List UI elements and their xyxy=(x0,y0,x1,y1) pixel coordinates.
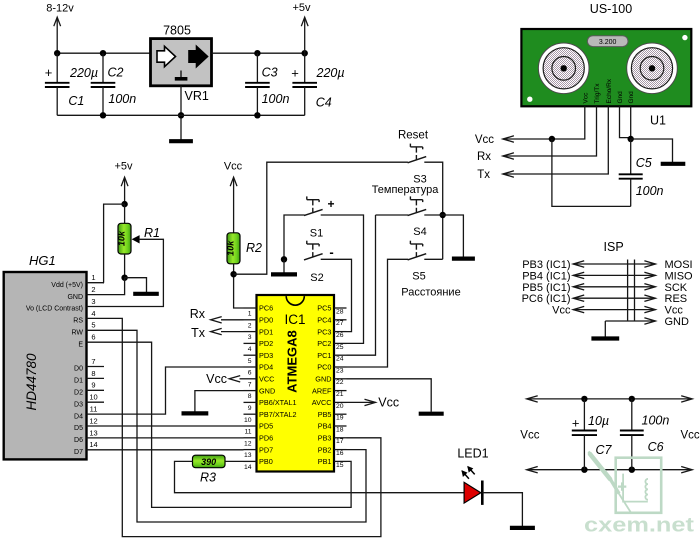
junction R1 bottom xyxy=(121,275,127,281)
svg-text:9: 9 xyxy=(248,405,252,412)
svg-text:9: 9 xyxy=(91,381,95,390)
svg-text:+: + xyxy=(291,66,299,81)
wire R3 to PB0 xyxy=(225,460,244,462)
capacitor C5 xyxy=(619,139,664,206)
svg-text:Vdd (+5V): Vdd (+5V) xyxy=(51,282,83,289)
wire Vcc bottom rail xyxy=(527,467,693,473)
svg-text:100n: 100n xyxy=(636,184,664,198)
svg-text:S4: S4 xyxy=(413,226,426,238)
capacitor C1 xyxy=(45,53,98,115)
svg-text:Vcc: Vcc xyxy=(224,161,243,173)
svg-text:PB5: PB5 xyxy=(318,410,332,419)
svg-text:8: 8 xyxy=(91,369,95,378)
svg-text:220µ: 220µ xyxy=(69,66,98,80)
svg-text:Gnd: Gnd xyxy=(628,91,635,104)
svg-text:Gnd: Gnd xyxy=(617,91,624,104)
svg-text:Trig/Tx: Trig/Tx xyxy=(594,83,601,104)
resistor R2 10k xyxy=(226,233,263,264)
svg-text:C1: C1 xyxy=(68,94,84,108)
svg-text:D5: D5 xyxy=(74,425,83,432)
svg-text:ISP: ISP xyxy=(604,240,624,254)
svg-text:PD5: PD5 xyxy=(259,422,273,431)
svg-text:Vo (LCD Contrast): Vo (LCD Contrast) xyxy=(26,306,83,313)
svg-text:22: 22 xyxy=(336,379,344,386)
junction C6 top xyxy=(629,396,635,402)
svg-text:D7: D7 xyxy=(74,449,83,456)
junction S3-S4 xyxy=(440,212,446,218)
svg-text:Vcc: Vcc xyxy=(520,430,539,442)
node Vcc (pin7) xyxy=(206,372,243,386)
svg-text:Echo/Rx: Echo/Rx xyxy=(606,78,613,103)
svg-text:+: + xyxy=(327,197,334,211)
wire Echo/Rx down to Tx xyxy=(503,106,608,174)
svg-text:D1: D1 xyxy=(74,378,83,385)
svg-text:PC2: PC2 xyxy=(317,339,331,348)
wire GND pin8 xyxy=(195,391,244,412)
junction S1-S2 left xyxy=(281,256,287,262)
wire LED cathode to ground xyxy=(482,493,522,526)
svg-text:PB6/XTAL1: PB6/XTAL1 xyxy=(259,398,297,407)
ground LED xyxy=(510,526,535,530)
button S4 xyxy=(408,196,427,215)
wire GND pin22 xyxy=(347,379,432,412)
svg-text:PB3: PB3 xyxy=(318,434,332,443)
svg-text:D0: D0 xyxy=(74,366,83,373)
svg-text:GND: GND xyxy=(665,316,690,328)
svg-text:15: 15 xyxy=(336,462,344,469)
svg-text:S2: S2 xyxy=(310,272,323,284)
potentiometer R1 10k xyxy=(116,204,160,278)
svg-text:Vcc: Vcc xyxy=(665,305,684,317)
junction Vcc line C5 xyxy=(549,136,555,142)
svg-text:12: 12 xyxy=(244,440,252,447)
svg-text:25: 25 xyxy=(336,344,344,351)
svg-text:R1: R1 xyxy=(144,226,160,240)
svg-text:HG1: HG1 xyxy=(29,253,56,268)
wire S1 left xyxy=(284,215,305,259)
svg-text:10µ: 10µ xyxy=(588,414,609,428)
svg-text:8-12v: 8-12v xyxy=(46,3,74,15)
svg-text:C3: C3 xyxy=(262,66,278,80)
junction C7 bottom xyxy=(581,467,587,473)
regulator VR1 7805 xyxy=(151,24,212,104)
node Tx (IC) xyxy=(191,326,243,340)
ground VR1 xyxy=(169,139,193,143)
wire RS to PB3 xyxy=(104,318,381,536)
ground U1 xyxy=(661,162,686,166)
wire S5 left to PC0 xyxy=(347,259,409,367)
HG1 pin labels and numbers xyxy=(26,273,104,456)
wire S2 left to ground xyxy=(283,259,285,272)
svg-text:24: 24 xyxy=(336,356,344,363)
svg-text:RES: RES xyxy=(665,293,688,305)
svg-text:23: 23 xyxy=(336,367,344,374)
wire D4 to PD4 xyxy=(104,367,244,414)
US-100 pin labels xyxy=(582,78,635,103)
capacitor C4 xyxy=(291,53,344,115)
svg-text:LED1: LED1 xyxy=(457,447,488,461)
node Rx (IC) xyxy=(190,307,244,323)
op IC1 ATMEGA8 xyxy=(257,295,335,472)
svg-text:10k: 10k xyxy=(116,230,126,246)
svg-text:C6: C6 xyxy=(648,440,664,454)
capacitor C6 xyxy=(620,399,669,470)
svg-text:20: 20 xyxy=(336,403,344,410)
svg-text:13: 13 xyxy=(244,452,252,459)
watermark cxem.net xyxy=(584,452,694,537)
svg-text:4: 4 xyxy=(91,309,95,318)
junction input rail C2 xyxy=(100,50,106,56)
wire +5v to Vdd pin1 xyxy=(104,204,125,283)
svg-text:220µ: 220µ xyxy=(316,66,345,80)
svg-text:12: 12 xyxy=(89,416,97,425)
node Rx xyxy=(477,151,514,163)
capacitor C3 xyxy=(245,53,289,115)
svg-text:17: 17 xyxy=(336,438,344,445)
svg-text:Температура: Температура xyxy=(372,184,440,196)
junction output rail C3 xyxy=(254,50,260,56)
junction input rail C1 xyxy=(54,50,60,56)
svg-text:PC3: PC3 xyxy=(317,327,331,336)
wire reset line xyxy=(234,162,408,274)
svg-text:11: 11 xyxy=(90,405,98,414)
junction R1 top xyxy=(121,201,127,207)
button S3 Reset xyxy=(408,144,427,163)
svg-text:Расстояние: Расстояние xyxy=(401,287,460,299)
svg-text:SCK: SCK xyxy=(665,282,688,294)
svg-text:PD6: PD6 xyxy=(259,434,273,443)
svg-text:D2: D2 xyxy=(74,390,83,397)
svg-text:GND: GND xyxy=(315,375,331,384)
button S1 xyxy=(304,196,323,215)
junction VR1 gnd rail xyxy=(178,112,184,118)
svg-text:5: 5 xyxy=(248,358,252,365)
wire S5 right xyxy=(424,258,442,260)
svg-text:PD0: PD0 xyxy=(259,316,273,325)
svg-text:1: 1 xyxy=(91,273,95,282)
wire R1 bottom to GND pin2 xyxy=(104,278,125,295)
ground S1 S2 xyxy=(271,272,297,276)
junction bottom rail C2 xyxy=(100,112,106,118)
wire to ground xyxy=(125,278,147,292)
svg-text:R2: R2 xyxy=(246,241,262,255)
svg-text:10: 10 xyxy=(89,393,97,402)
junction C7 top xyxy=(581,396,587,402)
resistor R3 390 xyxy=(193,455,226,484)
svg-text:PB2: PB2 xyxy=(318,445,332,454)
ISP header xyxy=(522,259,693,328)
svg-text:IC1: IC1 xyxy=(284,312,305,327)
svg-text:MOSI: MOSI xyxy=(665,259,693,271)
svg-text:390: 390 xyxy=(201,457,216,467)
svg-text:10k: 10k xyxy=(226,240,236,256)
svg-text:16: 16 xyxy=(336,450,344,457)
sensor module US-100 xyxy=(521,2,691,106)
svg-text:3: 3 xyxy=(91,297,95,306)
svg-text:S1: S1 xyxy=(310,228,323,240)
svg-text:C4: C4 xyxy=(316,95,332,109)
node 8-12v input xyxy=(46,3,74,54)
svg-text:6: 6 xyxy=(248,370,252,377)
svg-text:U1: U1 xyxy=(650,114,666,128)
svg-text:11: 11 xyxy=(244,429,251,436)
wire input top rail xyxy=(57,52,150,54)
svg-text:+: + xyxy=(45,65,53,80)
LED LED1 xyxy=(457,447,488,505)
svg-text:6: 6 xyxy=(91,333,95,342)
junction R2 bottom xyxy=(230,271,236,277)
wire bottom rail xyxy=(57,114,305,116)
svg-text:PC6 (IC1): PC6 (IC1) xyxy=(522,293,571,305)
wire E to PB1 xyxy=(104,342,351,507)
svg-text:Rx: Rx xyxy=(477,151,491,163)
svg-text:19: 19 xyxy=(336,415,344,422)
svg-text:Reset: Reset xyxy=(398,130,429,142)
wire D7 to PD7 xyxy=(104,449,244,451)
svg-text:PB4 (IC1): PB4 (IC1) xyxy=(522,270,570,282)
svg-text:-: - xyxy=(329,245,333,260)
svg-text:C2: C2 xyxy=(108,66,124,80)
svg-text:Tx: Tx xyxy=(477,169,490,181)
svg-text:7: 7 xyxy=(91,357,95,366)
svg-text:RS: RS xyxy=(73,318,83,325)
svg-text:18: 18 xyxy=(336,426,344,433)
svg-text:14: 14 xyxy=(244,464,252,471)
svg-text:28: 28 xyxy=(336,308,344,315)
node Vcc xyxy=(475,134,514,146)
svg-text:Vcc: Vcc xyxy=(378,396,399,410)
svg-text:C7: C7 xyxy=(596,443,613,457)
svg-text:PD4: PD4 xyxy=(259,363,273,372)
svg-text:PB0: PB0 xyxy=(259,457,273,466)
svg-text:10: 10 xyxy=(244,417,252,424)
svg-text:PC6: PC6 xyxy=(259,304,273,313)
wire ISP gnd xyxy=(604,321,606,337)
junction output rail C4 xyxy=(302,50,308,56)
svg-text:AVCC: AVCC xyxy=(312,398,332,407)
wire S3 right xyxy=(424,162,442,259)
svg-text:VCC: VCC xyxy=(259,375,274,384)
svg-text:21: 21 xyxy=(336,391,344,398)
junction C6 bottom xyxy=(629,467,635,473)
svg-text:cxem.net: cxem.net xyxy=(584,515,694,537)
svg-text:+5v: +5v xyxy=(114,161,133,173)
svg-text:7805: 7805 xyxy=(163,24,191,38)
svg-text:C5: C5 xyxy=(636,156,652,170)
wire RW to PB2 xyxy=(104,330,366,522)
svg-text:AREF: AREF xyxy=(312,386,332,395)
svg-text:R3: R3 xyxy=(200,471,216,485)
svg-text:Vcc: Vcc xyxy=(475,134,494,146)
svg-text:Vcc: Vcc xyxy=(582,92,589,104)
wire S4 left to PC1 xyxy=(347,215,376,355)
svg-text:+: + xyxy=(572,415,580,430)
button S2 xyxy=(304,241,323,260)
svg-text:Rx: Rx xyxy=(190,307,206,321)
svg-text:MISO: MISO xyxy=(665,270,694,282)
wire gnd to ground xyxy=(631,139,673,162)
svg-text:VR1: VR1 xyxy=(185,89,209,103)
svg-text:ATMEGA8: ATMEGA8 xyxy=(285,330,300,393)
svg-text:100n: 100n xyxy=(642,414,670,428)
wire Gnd pins xyxy=(620,106,631,137)
button S5 xyxy=(408,241,427,260)
svg-text:26: 26 xyxy=(336,332,344,339)
svg-text:PB4: PB4 xyxy=(318,422,332,431)
wire R1 wiper to Vo xyxy=(104,239,163,306)
node +5v output xyxy=(292,2,311,53)
svg-text:PB1: PB1 xyxy=(318,457,332,466)
capacitor C2 xyxy=(91,53,137,115)
wire D5 to PD5 xyxy=(104,425,244,427)
wire C5 bottom to Vcc xyxy=(552,139,631,206)
node +5v (R1) xyxy=(114,161,133,205)
svg-text:US-100: US-100 xyxy=(590,2,632,16)
svg-text:Vcc: Vcc xyxy=(206,372,227,386)
svg-text:PC1: PC1 xyxy=(317,351,331,360)
svg-text:HD44780: HD44780 xyxy=(24,353,39,411)
svg-text:Tx: Tx xyxy=(191,326,206,340)
svg-text:2: 2 xyxy=(248,322,252,329)
svg-text:27: 27 xyxy=(336,320,344,327)
ground pin8 xyxy=(182,411,209,415)
svg-text:Vcc: Vcc xyxy=(681,430,700,442)
svg-text:D6: D6 xyxy=(74,437,83,444)
svg-text:PC0: PC0 xyxy=(317,363,331,372)
wire Vcc pin down xyxy=(503,106,585,139)
svg-text:PD3: PD3 xyxy=(259,351,273,360)
wire S2 right to PC3 xyxy=(321,259,352,331)
transducer right xyxy=(627,43,678,94)
svg-text:100n: 100n xyxy=(108,92,136,106)
display HG1 HD44780 xyxy=(4,253,87,459)
svg-text:14: 14 xyxy=(89,440,97,449)
junction Gnd pins xyxy=(628,136,634,142)
svg-text:GND: GND xyxy=(67,294,83,301)
svg-text:E: E xyxy=(78,341,83,348)
wire Trig/Tx down to Rx xyxy=(503,106,597,156)
svg-text:100n: 100n xyxy=(262,92,290,106)
svg-text:Vcc: Vcc xyxy=(552,305,571,317)
svg-text:GND: GND xyxy=(259,386,275,395)
svg-text:8: 8 xyxy=(248,393,252,400)
svg-text:7: 7 xyxy=(248,381,252,388)
ground R1 xyxy=(133,292,159,296)
svg-text:PD1: PD1 xyxy=(259,327,273,336)
svg-text:4: 4 xyxy=(248,346,252,353)
svg-text:1: 1 xyxy=(248,311,252,318)
node Vcc (R2) xyxy=(224,161,243,233)
svg-text:3.200: 3.200 xyxy=(599,39,617,46)
svg-text:PB3 (IC1): PB3 (IC1) xyxy=(522,259,570,271)
wire R3 left to LED row xyxy=(175,461,465,492)
svg-text:PC5: PC5 xyxy=(317,304,331,313)
transducer left xyxy=(538,43,589,94)
svg-text:13: 13 xyxy=(89,428,97,437)
ground ISP xyxy=(591,336,619,340)
svg-text:5: 5 xyxy=(91,321,95,330)
svg-text:+5v: +5v xyxy=(292,2,311,14)
svg-text:S5: S5 xyxy=(412,271,425,283)
svg-text:D3: D3 xyxy=(74,401,83,408)
svg-text:PD7: PD7 xyxy=(259,445,273,454)
node Tx xyxy=(477,169,514,181)
wire R2 to PC6 pin1 xyxy=(234,264,244,308)
svg-text:D4: D4 xyxy=(74,413,83,420)
svg-text:3: 3 xyxy=(248,334,252,341)
junction bottom rail C3 xyxy=(254,112,260,118)
wire Vcc top rail xyxy=(527,396,693,402)
IC1 pins xyxy=(244,304,347,471)
svg-text:2: 2 xyxy=(91,285,95,294)
wire D6 to PD6 xyxy=(104,437,244,439)
svg-text:PB5 (IC1): PB5 (IC1) xyxy=(522,282,570,294)
wire 7805 gnd pin xyxy=(180,86,182,140)
capacitor C7 xyxy=(572,399,613,470)
ground pin22 xyxy=(419,412,444,416)
svg-text:PD2: PD2 xyxy=(259,339,273,348)
wire 7805 output xyxy=(212,52,305,54)
wire S4 row xyxy=(376,214,409,216)
svg-text:RW: RW xyxy=(71,330,83,337)
svg-text:PC4: PC4 xyxy=(317,316,331,325)
node Vcc (pin20 AVCC) xyxy=(347,396,400,410)
svg-text:PB7/XTAL2: PB7/XTAL2 xyxy=(259,410,297,419)
ground S4 xyxy=(452,257,475,261)
wire S1 right to PC2 xyxy=(321,215,364,343)
